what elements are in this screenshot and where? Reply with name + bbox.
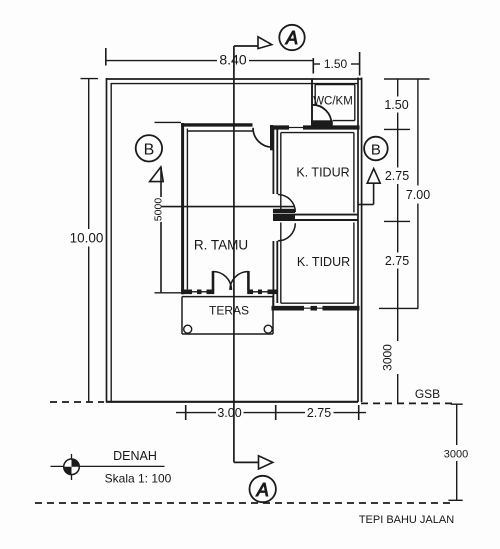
front double door leaves — [212, 271, 215, 290]
right chain ticks — [384, 78, 430, 80]
north symbol — [71, 454, 73, 480]
front door arcs — [213, 272, 232, 291]
svg-text:2.75: 2.75 — [307, 406, 331, 420]
dimension 10.00 line — [81, 78, 99, 80]
door arc at R.TAMU top — [253, 128, 272, 147]
inter-bedroom wall double lines — [295, 214, 358, 216]
svg-text:K. TIDUR: K. TIDUR — [297, 255, 350, 269]
bedroom1 inner lines — [281, 132, 354, 134]
road edge dashed line (tepi bahu jalan) — [35, 502, 453, 504]
dimension 8.40 line — [105, 48, 107, 66]
dimension 1.50 top — [312, 58, 314, 74]
TERAS column circles — [184, 325, 192, 333]
section A bottom jog and arrow — [234, 461, 259, 463]
building right wall inner segments — [353, 133, 355, 213]
section line A vertical — [233, 46, 235, 462]
section B horizontal line — [161, 206, 295, 208]
svg-text:B: B — [371, 141, 381, 158]
middle wall lower segment (double line) — [272, 241, 274, 307]
inter-bedroom wall solid part + door leaf — [273, 209, 295, 213]
property boundary right (double line) — [357, 78, 359, 403]
svg-text:A: A — [256, 480, 269, 500]
GSB dashed line — [361, 402, 457, 404]
right dimension chain line — [397, 79, 399, 97]
svg-text:WC/KM: WC/KM — [313, 96, 353, 108]
svg-text:R. TAMU: R. TAMU — [194, 238, 248, 253]
door leaf at R.TAMU top — [270, 125, 273, 150]
svg-text:A: A — [285, 28, 298, 48]
dashed setback line left of property — [50, 401, 104, 403]
bedroom door upper arc — [278, 195, 296, 213]
WC/KM left wall (double line) — [311, 79, 313, 121]
wall R.TAMU left inner line — [186, 129, 188, 290]
svg-text:3.00: 3.00 — [217, 406, 241, 420]
svg-text:TERAS: TERAS — [209, 304, 249, 318]
section B right — [358, 204, 374, 206]
svg-text:8.40: 8.40 — [219, 52, 246, 68]
property boundary left (double line) — [106, 78, 108, 402]
bedroom2 inner lines — [280, 223, 282, 304]
section A bottom circle — [250, 476, 276, 502]
svg-text:TEPI BAHU JALAN: TEPI BAHU JALAN — [359, 514, 454, 526]
svg-text:3000: 3000 — [381, 344, 395, 371]
wall R.TAMU top outer — [181, 123, 252, 126]
property boundary top (double line) — [106, 78, 362, 80]
svg-text:2.75: 2.75 — [385, 254, 409, 268]
bottom dimension line 3.00 / 2.75 — [176, 412, 216, 414]
property boundary bottom — [106, 401, 358, 403]
DENAH title underline — [51, 465, 165, 467]
svg-text:3000: 3000 — [444, 449, 468, 461]
svg-text:DENAH: DENAH — [113, 449, 157, 463]
section A top circle — [279, 25, 304, 50]
svg-text:10.00: 10.00 — [70, 231, 104, 246]
wall R.TAMU left outer — [181, 123, 184, 294]
WC/KM door threshold (black) — [311, 120, 333, 125]
lower right 3000 dimension — [456, 404, 458, 445]
section B left arrow — [150, 167, 164, 182]
svg-text:2.75: 2.75 — [385, 169, 409, 183]
section B left circle — [136, 135, 162, 161]
svg-text:1.50: 1.50 — [384, 98, 408, 112]
bedroom door lower arc — [278, 223, 296, 241]
5000 dimension ticks — [155, 121, 182, 123]
svg-text:B: B — [144, 142, 155, 159]
window line in bedroom top wall — [289, 127, 303, 129]
svg-text:7.00: 7.00 — [406, 188, 430, 202]
wall R.TAMU top inner line — [187, 130, 252, 132]
WC/KM door arc — [312, 105, 331, 124]
TERAS outline — [182, 296, 273, 298]
middle wall upper segment (double line) — [272, 127, 274, 194]
svg-text:K. TIDUR: K. TIDUR — [296, 166, 349, 180]
svg-text:Skala 1: 100: Skala 1: 100 — [105, 472, 172, 486]
section B left line — [160, 167, 162, 197]
top wall of bedrooms (under WC/KM) — [271, 125, 289, 129]
svg-text:5000: 5000 — [153, 198, 165, 222]
bedroom2 bottom wall with window — [272, 306, 305, 311]
WC/KM inner rectangle lines — [315, 84, 355, 86]
section A top jog and arrow — [234, 45, 259, 47]
R.TAMU bottom wall segments with windows and door opening — [181, 289, 192, 294]
svg-text:1.50: 1.50 — [324, 57, 348, 71]
dimension 7.00 line — [417, 79, 419, 186]
